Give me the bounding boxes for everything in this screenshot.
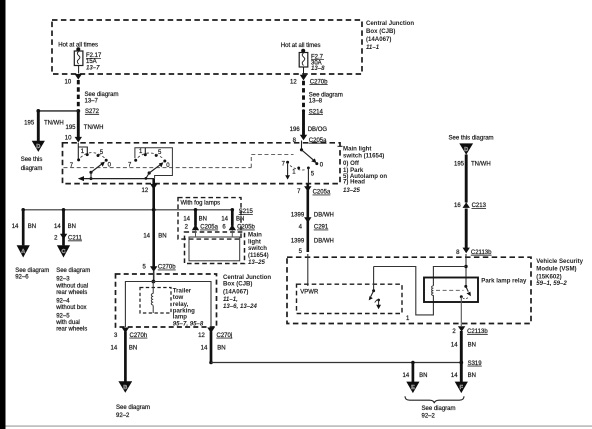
- svg-text:BN: BN: [217, 346, 225, 352]
- switch pole 2 body outline: [135, 148, 173, 179]
- svg-text:C270h: C270h: [130, 333, 148, 339]
- wire label 14 BN (B): [111, 346, 138, 352]
- wire label 14 BN upper F: [451, 343, 476, 349]
- svg-text:14: 14: [403, 373, 410, 379]
- svg-text:C270b: C270b: [310, 79, 328, 85]
- VSM label block: [536, 258, 583, 287]
- svg-text:C: C: [61, 249, 65, 255]
- svg-text:(14A067): (14A067): [223, 289, 248, 296]
- wire: C213 down to C2113b: [465, 209, 468, 249]
- wire label 14 BN lower F: [451, 373, 476, 379]
- switch pole 3 position labels: [282, 161, 324, 177]
- svg-text:92–6: 92–6: [15, 274, 29, 280]
- switch pole 1 feed stub: [77, 143, 79, 159]
- VSM driver switch: [369, 289, 381, 309]
- splice S215 node: [231, 208, 235, 212]
- svg-text:Box (CJB): Box (CJB): [223, 281, 252, 288]
- switch pole 3 contact dots: [286, 161, 318, 170]
- svg-text:13–8: 13–8: [311, 65, 325, 72]
- wire: down to arrow D left: [37, 111, 40, 141]
- wire label 14 BN (E): [403, 373, 428, 379]
- wire: down to S319: [460, 331, 463, 382]
- connector C2113b entry arrow: [463, 248, 470, 254]
- switch pole 1 wiper: [89, 162, 105, 174]
- switch pole 3 pivot: [300, 148, 303, 151]
- trailer tow relay label block: [173, 288, 204, 328]
- svg-text:B: B: [123, 385, 127, 391]
- svg-text:14: 14: [221, 217, 228, 223]
- wire: S272 down to switch entry: [77, 111, 80, 137]
- svg-text:See diagram: See diagram: [422, 406, 456, 412]
- svg-text:DB/WH: DB/WH: [314, 212, 334, 218]
- svg-text:13–25: 13–25: [343, 187, 361, 194]
- node bus main junction: [152, 208, 156, 212]
- svg-text:13–6, 13–24: 13–6, 13–24: [223, 303, 257, 310]
- svg-text:D: D: [36, 144, 40, 150]
- svg-text:10: 10: [65, 79, 72, 85]
- fuse F2.17 labels: [86, 53, 102, 71]
- switch pole 3 travel arc: [290, 166, 307, 171]
- svg-text:E: E: [411, 385, 415, 391]
- scan bottom gray rule: [6, 425, 592, 427]
- wire: horizontal run to S319: [211, 362, 461, 364]
- off-page arrow C: [57, 245, 70, 257]
- svg-text:DB/WH: DB/WH: [314, 239, 334, 245]
- node coil feed junction: [464, 265, 467, 268]
- connector arrow C270b entry: [150, 266, 157, 272]
- see diagram 92-2 note EF: [422, 406, 456, 420]
- switch pole 2 contact dots: [134, 153, 166, 162]
- svg-text:BN: BN: [419, 373, 427, 379]
- svg-text:See diagram: See diagram: [56, 268, 90, 274]
- svg-text:TN/WH: TN/WH: [44, 121, 64, 127]
- wire: S215 drop to C205a: [194, 210, 197, 226]
- svg-text:Hot at all times: Hot at all times: [281, 43, 321, 49]
- node arrow E drop: [411, 361, 415, 365]
- svg-text:14: 14: [451, 373, 458, 379]
- node bus left end: [21, 208, 25, 212]
- svg-text:92–3: 92–3: [56, 276, 70, 282]
- wire label 14 BN (A): [12, 224, 36, 230]
- svg-text:TN/WH: TN/WH: [471, 161, 491, 167]
- svg-text:S214: S214: [309, 109, 324, 115]
- wire: driver switch feed drop: [373, 267, 375, 291]
- main light switch label block: [338, 145, 388, 194]
- Central Junction Box (CJB) top dashed enclosure: [52, 20, 362, 74]
- connector C211 inline arrow: [60, 234, 67, 240]
- svg-text:BN: BN: [129, 346, 137, 352]
- wire: S272 branch left: [38, 110, 78, 112]
- CJB 2 label block: [223, 274, 271, 310]
- svg-text:195: 195: [454, 161, 465, 167]
- connector arrow C270j exit: [207, 328, 214, 334]
- pin 3 and C270h labels: [114, 333, 147, 339]
- svg-text:BN: BN: [28, 224, 36, 230]
- fuse F2.17: [74, 47, 83, 73]
- wire label 195 TN/WH right: [454, 161, 491, 167]
- internal rail left and right: [125, 282, 211, 328]
- svg-text:rear wheels: rear wheels: [56, 327, 87, 333]
- switch pole 3 output stub contact 5: [307, 168, 309, 184]
- svg-text:92–5: 92–5: [56, 314, 70, 320]
- svg-text:14: 14: [111, 346, 118, 352]
- wire: dashed trunk pin12 to S214: [302, 81, 305, 110]
- svg-text:92–2: 92–2: [116, 413, 130, 419]
- svg-text:12: 12: [290, 79, 297, 85]
- svg-text:196: 196: [290, 127, 301, 133]
- wire label 1399 DB/WH upper: [291, 212, 334, 218]
- pin 5 and C270b labels: [142, 265, 176, 271]
- switch pole 2 position labels: [128, 149, 170, 169]
- pin 4 and C291 labels: [299, 225, 329, 231]
- wire: driver switch rail: [374, 267, 434, 315]
- wire: pin 5 stub into VPWR: [307, 254, 309, 286]
- connector arrow C205b fog: [229, 224, 236, 230]
- svg-text:See this: See this: [21, 157, 43, 163]
- svg-text:C2113b: C2113b: [471, 250, 492, 256]
- svg-text:92–2: 92–2: [422, 414, 436, 420]
- pin 2 and C211 labels: [54, 236, 82, 242]
- wire label 14 BN (C270j): [201, 346, 226, 352]
- pin 2 and C2113b labels: [452, 329, 488, 335]
- wire: dashed trunk pin10 to S272: [77, 80, 80, 109]
- wire: entry stub to junction: [153, 271, 155, 282]
- connector arrow C205a fog: [192, 224, 199, 230]
- svg-text:VPWR: VPWR: [300, 290, 319, 296]
- wire: switch box entry arrow pin 8: [300, 135, 307, 141]
- svg-text:D: D: [464, 147, 468, 153]
- svg-text:14: 14: [54, 224, 61, 230]
- main light switch 2 dashed enclosure: [185, 232, 245, 264]
- off-page arrow B: [118, 381, 132, 393]
- svg-text:without dual: without dual: [55, 284, 88, 290]
- see diagram 92-3 notes: [55, 268, 90, 332]
- fuse F2.7 labels: [311, 54, 325, 72]
- svg-text:S272: S272: [85, 109, 100, 115]
- node CJB2 junction: [152, 280, 156, 284]
- svg-text:195: 195: [65, 125, 76, 131]
- internal bus with left arrow: [78, 176, 155, 181]
- wire: switch box entry arrow pin 10: [75, 137, 82, 143]
- svg-text:BN: BN: [468, 343, 476, 349]
- svg-text:See this diagram: See this diagram: [449, 136, 494, 142]
- svg-text:1399: 1399: [291, 239, 305, 245]
- wire: bus down to arrow C: [62, 210, 65, 246]
- svg-text:11–1: 11–1: [366, 44, 380, 51]
- svg-text:BN: BN: [468, 373, 476, 379]
- main light switch 2 body: [189, 237, 240, 261]
- wire: relay output down to VSM edge: [460, 297, 462, 326]
- with fog lamps dashed enclosure: [178, 198, 241, 240]
- svg-text:C270j: C270j: [217, 333, 233, 339]
- svg-text:13–25: 13–25: [248, 259, 266, 266]
- svg-text:switch (11654): switch (11654): [343, 152, 384, 159]
- svg-text:12: 12: [198, 333, 205, 339]
- connector C291 inline arrow: [304, 217, 311, 223]
- off-page arrow D right (source): [459, 143, 473, 154]
- Central Junction Box 2 dashed enclosure: [116, 274, 217, 327]
- switch pole 3 contact 7 down arrow: [285, 164, 290, 180]
- switch pole 1 position labels: [70, 149, 112, 169]
- svg-text:With fog lamps: With fog lamps: [181, 200, 221, 206]
- splice S319: [459, 361, 463, 365]
- wire: CJB pin 10 exit arrow: [75, 74, 82, 80]
- svg-text:Main light: Main light: [343, 145, 371, 152]
- node at branch left end: [36, 109, 40, 113]
- park lamp relay contact: [460, 285, 471, 299]
- connector C205a exit arrow: [304, 186, 311, 192]
- svg-text:C270b: C270b: [158, 265, 176, 271]
- wire: coil top feed: [433, 267, 466, 286]
- switch pole 1 travel arc: [81, 153, 105, 158]
- splice S214: [302, 109, 305, 112]
- wire: C270h down to arrow B: [124, 332, 127, 382]
- svg-text:C291: C291: [314, 225, 329, 231]
- labels 14 BN 6 C205b: [221, 217, 255, 231]
- svg-text:Central Junction: Central Junction: [366, 20, 414, 27]
- svg-text:See diagram: See diagram: [85, 92, 119, 98]
- wire label 14 BN (trunk): [143, 233, 166, 239]
- switch pole 2 pivot drop: [146, 173, 149, 178]
- svg-text:Park lamp relay: Park lamp relay: [481, 277, 527, 284]
- svg-text:Vehicle Security: Vehicle Security: [536, 258, 583, 265]
- see diagram 13-7 note: [85, 92, 119, 104]
- wire: pin8 thin feed through relay common: [465, 254, 467, 286]
- trailer tow relay coil: [151, 282, 153, 314]
- mechanical link dashed line: [64, 155, 294, 168]
- svg-text:(11654): (11654): [248, 252, 269, 259]
- stub wires into switch body: [196, 230, 233, 237]
- svg-text:C205b: C205b: [237, 225, 255, 231]
- connector C2113b exit arrow: [458, 326, 465, 332]
- svg-text:See diagram: See diagram: [309, 92, 343, 98]
- switch pole 3 wiper: [302, 150, 317, 163]
- svg-text:14: 14: [451, 343, 458, 349]
- off-page arrow A: [17, 245, 30, 257]
- wire label 14 BN (C): [54, 224, 76, 230]
- node S215 drop 1: [194, 208, 198, 212]
- pin 16 and C213 labels: [454, 203, 487, 209]
- off-page arrow F: [455, 382, 468, 394]
- svg-text:11–1,: 11–1,: [223, 296, 238, 303]
- wire label 195 TN/WH left: [24, 121, 63, 127]
- svg-text:rear wheels: rear wheels: [56, 290, 87, 296]
- svg-text:C205a: C205a: [313, 190, 331, 196]
- park lamp relay coil: [432, 286, 434, 296]
- pin 8 and C2113b labels: [456, 250, 492, 256]
- svg-text:See diagram: See diagram: [116, 405, 150, 411]
- switch pole 2 feed stub: [144, 148, 146, 154]
- svg-text:BN: BN: [236, 217, 244, 223]
- wire label 195 TN/WH: [65, 125, 103, 131]
- svg-text:diagram: diagram: [21, 166, 43, 172]
- svg-text:A: A: [21, 249, 25, 255]
- see diagram 92-6 note: [15, 268, 49, 280]
- see this diagram note: [21, 157, 43, 172]
- svg-text:7) Head: 7) Head: [343, 179, 365, 186]
- svg-text:DB/OG: DB/OG: [308, 127, 328, 133]
- node C270j bottom: [209, 361, 213, 365]
- connector C213 inline arrow (up): [463, 202, 470, 208]
- see diagram 92-2 note B: [116, 405, 150, 419]
- svg-text:13–8: 13–8: [309, 99, 323, 105]
- node bus arrow C drop: [62, 208, 66, 212]
- wire: S215 drop to C205b: [231, 210, 234, 226]
- svg-text:Hot at all times: Hot at all times: [58, 42, 98, 48]
- svg-text:195: 195: [24, 121, 35, 127]
- svg-text:Module (VSM): Module (VSM): [536, 266, 576, 273]
- brace under E and F: [405, 396, 464, 403]
- svg-text:Main: Main: [248, 232, 262, 239]
- svg-text:14: 14: [183, 217, 190, 223]
- wire: bus down to arrow A: [22, 210, 25, 246]
- svg-text:14: 14: [143, 233, 150, 239]
- svg-text:BN: BN: [68, 224, 76, 230]
- wire: arrow D down to C213: [465, 155, 468, 203]
- splice S272: [76, 109, 80, 113]
- wire: S214 down to switch entry: [302, 111, 305, 135]
- svg-text:16: 16: [454, 203, 461, 209]
- svg-text:without box: without box: [55, 305, 86, 311]
- svg-text:10: 10: [65, 136, 72, 142]
- ground bus horizontal wire: [23, 209, 232, 211]
- svg-text:TN/WH: TN/WH: [84, 125, 104, 131]
- svg-text:Box (CJB): Box (CJB): [366, 28, 395, 35]
- switch pole 2 wiper: [148, 162, 164, 174]
- svg-text:C2113b: C2113b: [467, 329, 488, 335]
- connector arrow C270h exit: [122, 328, 129, 334]
- park lamp relay link dashes: [436, 289, 464, 291]
- wire: switch exit pin 7 down to VSM: [306, 184, 309, 252]
- see diagram 13-8 note: [309, 92, 343, 104]
- labels 14 BN 2 C205a: [183, 217, 218, 231]
- VPWR dashed box: [297, 284, 403, 313]
- main light switch 2 label block: [248, 232, 269, 267]
- fuse F2.7: [299, 49, 308, 75]
- off-page arrow E: [406, 382, 419, 394]
- svg-text:S319: S319: [468, 361, 483, 367]
- wire label 1399 DB/WH lower: [291, 239, 334, 245]
- svg-text:14: 14: [12, 224, 19, 230]
- svg-text:59–1, 59–2: 59–1, 59–2: [536, 280, 567, 287]
- svg-text:C205a: C205a: [200, 225, 218, 231]
- svg-text:12: 12: [142, 188, 149, 194]
- svg-text:13–7: 13–7: [86, 65, 100, 72]
- wire: bus junction down to CJB pin 5: [152, 210, 155, 269]
- main light switch dashed enclosure: [63, 143, 341, 184]
- trailer tow relay dashed box: [140, 288, 171, 314]
- svg-text:BN: BN: [199, 217, 207, 223]
- svg-text:(14A067): (14A067): [366, 36, 391, 43]
- switch pole 2 travel arc: [138, 153, 163, 158]
- switch pole 1 pivot drop: [90, 172, 92, 178]
- svg-text:lamp: lamp: [173, 314, 188, 321]
- pin 12 and C270j labels: [198, 333, 232, 339]
- svg-text:See diagram: See diagram: [15, 268, 49, 274]
- wire: switch pole 2 exit to pin 12: [152, 179, 155, 210]
- switch pole 3 feed stub: [301, 141, 303, 150]
- svg-text:BN: BN: [158, 233, 166, 239]
- CJB label: [366, 20, 414, 51]
- svg-text:95–7, 95–8: 95–7, 95–8: [173, 321, 204, 328]
- svg-text:C213: C213: [472, 203, 487, 209]
- svg-text:with dual: with dual: [55, 320, 80, 326]
- wire: CJB pin 12 exit arrow: [300, 75, 307, 81]
- wire label 196 DB/OG: [290, 127, 328, 133]
- Vehicle Security Module dashed enclosure: [287, 257, 531, 323]
- switch pole 1 contact 1 branch: [78, 147, 87, 154]
- scan border left black bar: [0, 0, 6, 429]
- switch pole 1 contact dots: [77, 153, 108, 162]
- svg-text:13–7: 13–7: [85, 98, 99, 104]
- park lamp relay solid box: [424, 278, 478, 303]
- svg-text:14: 14: [201, 346, 208, 352]
- wire: C270j down to S319 line: [210, 332, 213, 363]
- wire: down to arrow E: [412, 363, 415, 383]
- switch box exit arrow pin 12: [150, 184, 157, 190]
- svg-text:F: F: [460, 385, 464, 391]
- svg-text:92–4: 92–4: [56, 299, 70, 305]
- svg-text:1399: 1399: [291, 212, 305, 218]
- svg-text:C211: C211: [68, 236, 83, 242]
- off-page arrow D left: [32, 141, 45, 152]
